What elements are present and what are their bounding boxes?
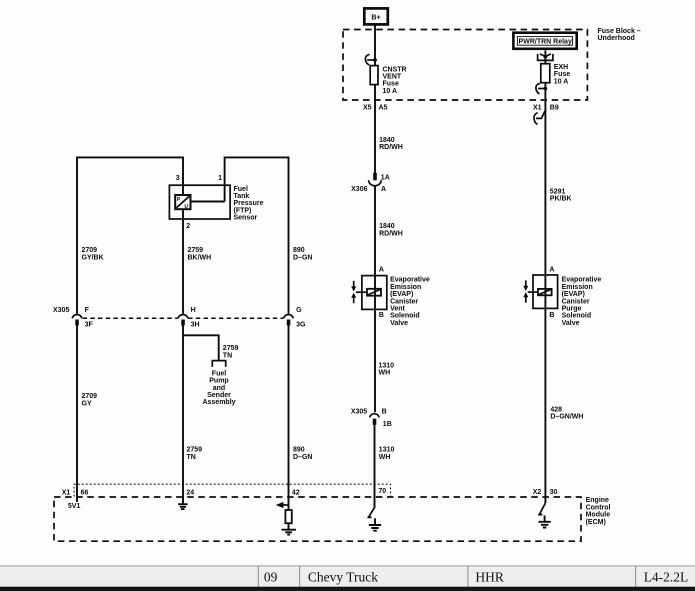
wire label 1310 WH upper [379, 362, 395, 376]
vent valve name label [390, 277, 430, 327]
svg-text:3G: 3G [296, 321, 306, 328]
svg-text:TN: TN [223, 352, 232, 359]
wire label 2709 GY/BK [82, 247, 104, 261]
ECM connector X1 dotted outline [74, 484, 390, 496]
svg-text:1840: 1840 [379, 137, 395, 144]
svg-text:X1: X1 [533, 105, 542, 112]
wire label 5291 PK/BK [550, 188, 572, 202]
svg-text:1A: 1A [381, 174, 390, 181]
wire X305 G to ECM pin 42 [288, 325, 290, 510]
solenoid L2 EVAP canister purge valve box [528, 275, 558, 308]
wire label 2759 BK/WH [188, 247, 212, 261]
svg-text:1B: 1B [383, 421, 392, 428]
svg-text:1310: 1310 [379, 447, 395, 454]
relay socket terminal under relay [538, 50, 553, 63]
svg-text:Sensor: Sensor [234, 215, 258, 222]
footer black bar [0, 587, 695, 591]
wire label 1840 RD/WH upper [379, 137, 403, 151]
fuel pump and sender assembly terminal bracket [212, 361, 225, 367]
connector X305 row dashed line [83, 317, 284, 319]
svg-text:B: B [549, 312, 554, 319]
svg-text:Assembly: Assembly [202, 399, 235, 406]
fuse F1 CNSTR VENT Fuse 10A [370, 66, 406, 95]
svg-text:Pressure: Pressure [234, 200, 264, 207]
svg-text:1310: 1310 [379, 362, 395, 369]
svg-text:5V1: 5V1 [68, 503, 81, 510]
svg-text:A5: A5 [379, 105, 388, 112]
svg-text:890: 890 [293, 447, 305, 454]
fuel pump and sender assembly label [202, 370, 235, 406]
svg-text:Fuse: Fuse [383, 81, 399, 88]
svg-text:5291: 5291 [550, 188, 566, 195]
svg-text:X2: X2 [533, 489, 542, 496]
svg-text:Fuse: Fuse [554, 71, 570, 78]
svg-text:24: 24 [186, 489, 194, 496]
svg-text:2759: 2759 [223, 345, 239, 352]
svg-text:PK/BK: PK/BK [550, 196, 572, 203]
svg-text:428: 428 [550, 407, 562, 414]
switch S1 at ECM pin 70 [367, 508, 374, 518]
wire label 1840 RD/WH lower [379, 223, 403, 237]
svg-text:and: and [213, 385, 225, 392]
wire label 2759 TN branch [223, 345, 239, 359]
label Fuse Block - Underhood [598, 28, 641, 42]
svg-text:2709: 2709 [82, 247, 98, 254]
connector X305 pin B/1B [351, 409, 392, 428]
svg-text:B: B [379, 312, 384, 319]
purge valve pneumatic arrows [523, 280, 528, 302]
svg-text:42: 42 [292, 489, 300, 496]
svg-text:2759: 2759 [187, 447, 203, 454]
ground G4 at ECM X2 pin 30 [539, 516, 551, 528]
purge valve name label [562, 277, 602, 327]
wire label 890 D-GN upper [293, 247, 312, 261]
svg-text:Valve: Valve [562, 320, 580, 327]
svg-text:P: P [177, 197, 181, 203]
svg-text:10 A: 10 A [554, 78, 569, 85]
svg-text:D–GN: D–GN [293, 454, 312, 461]
svg-text:1: 1 [218, 175, 222, 182]
svg-text:Fuel: Fuel [234, 186, 248, 193]
wire label 2759 TN main [187, 447, 203, 461]
svg-text:Control: Control [586, 504, 611, 511]
svg-text:1840: 1840 [379, 223, 395, 230]
ECM name label [586, 497, 611, 526]
vent valve pneumatic arrows [351, 281, 356, 303]
svg-text:(ECM): (ECM) [586, 519, 606, 526]
wire label 1310 WH lower [379, 447, 395, 461]
svg-text:30: 30 [550, 489, 558, 496]
svg-text:Module: Module [586, 512, 611, 519]
wire purge valve to ECM X2 pin [544, 308, 546, 503]
svg-text:U: U [184, 204, 188, 210]
svg-text:Canister: Canister [562, 298, 590, 305]
svg-text:Underhood: Underhood [598, 35, 635, 42]
svg-text:3: 3 [176, 175, 180, 182]
svg-text:Emission: Emission [562, 284, 593, 291]
terminal clip above fuse F1 [365, 54, 377, 65]
svg-text:Sender: Sender [207, 392, 231, 399]
svg-text:Engine: Engine [586, 497, 609, 504]
svg-text:890: 890 [293, 247, 305, 254]
svg-text:10 A: 10 A [383, 88, 398, 95]
FTP transducer square element [175, 195, 190, 210]
svg-text:VENT: VENT [383, 74, 402, 81]
svg-text:70: 70 [378, 488, 386, 495]
internal arrow at ECM pin 42 [276, 502, 289, 508]
connector X5 pin A5 labels [363, 105, 388, 112]
svg-text:EXH: EXH [554, 64, 568, 71]
FTP sensor label [234, 186, 264, 222]
svg-text:A: A [381, 186, 386, 193]
wire label 2709 GY [82, 393, 98, 407]
svg-text:X306: X306 [351, 186, 367, 193]
svg-text:X305: X305 [351, 409, 367, 416]
sensor B1 Fuel Tank Pressure FTP outer box [169, 185, 230, 219]
connector X306 pin 1A/A [351, 173, 390, 193]
svg-text:Fuse Block –: Fuse Block – [598, 28, 641, 35]
svg-text:D–GN: D–GN [293, 254, 312, 261]
relay U1 PWR/TRN Relay [513, 33, 576, 49]
svg-text:L4-2.2L: L4-2.2L [644, 570, 689, 585]
wire label 890 D-GN lower [293, 447, 312, 461]
solenoid L1 EVAP canister vent valve box [356, 276, 387, 310]
ground G3 at ECM pin 70 [369, 518, 381, 530]
svg-text:Emission: Emission [390, 284, 421, 291]
svg-text:Canister: Canister [390, 298, 418, 305]
svg-text:Pump: Pump [209, 378, 228, 385]
fuse F2 EXH Fuse 10A [541, 64, 570, 86]
svg-text:GY: GY [82, 400, 92, 407]
connector X305 pin G [284, 307, 306, 329]
svg-text:Fuel: Fuel [212, 370, 226, 377]
wire branch to fuel pump [183, 335, 219, 360]
svg-text:B+: B+ [371, 14, 380, 21]
ground G2 below resistor [282, 523, 297, 534]
svg-text:B: B [382, 409, 387, 416]
svg-text:(FTP): (FTP) [234, 207, 252, 214]
svg-text:09: 09 [264, 570, 278, 585]
svg-text:Vent: Vent [390, 306, 405, 313]
wire through FTP square [182, 185, 184, 219]
svg-text:HHR: HHR [475, 570, 504, 585]
svg-text:X305: X305 [53, 307, 69, 314]
svg-text:Tank: Tank [234, 193, 250, 200]
ECM dashed box [54, 497, 581, 541]
svg-text:Solenoid: Solenoid [562, 313, 592, 320]
svg-text:X1: X1 [62, 489, 71, 496]
svg-text:66: 66 [81, 489, 89, 496]
svg-text:Evaporative: Evaporative [562, 277, 602, 284]
svg-text:B9: B9 [550, 105, 559, 112]
svg-text:(EVAP): (EVAP) [562, 291, 585, 298]
svg-text:WH: WH [379, 370, 391, 377]
svg-text:PWR/TRN Relay: PWR/TRN Relay [519, 38, 572, 45]
svg-text:G: G [296, 307, 302, 314]
wire X305 H to ECM pin 24 [182, 325, 184, 501]
wire FTP pin 1 loop to right column [225, 157, 289, 313]
svg-text:RD/WH: RD/WH [379, 230, 403, 237]
svg-text:(EVAP): (EVAP) [390, 291, 413, 298]
svg-text:RD/WH: RD/WH [379, 144, 403, 151]
wire vent valve to X305 B [374, 309, 376, 412]
svg-text:3F: 3F [85, 321, 94, 328]
connector X1 pin B9 labels [533, 105, 559, 112]
svg-text:Solenoid: Solenoid [390, 313, 420, 320]
wire FTP square to pin1 internal [191, 201, 225, 203]
terminal clip below EXH fuse [536, 83, 547, 110]
svg-text:Purge: Purge [562, 306, 582, 313]
svg-text:X5: X5 [363, 105, 372, 112]
svg-text:A: A [379, 267, 384, 274]
svg-text:BK/WH: BK/WH [188, 254, 212, 261]
svg-text:H: H [191, 307, 196, 314]
footer info bar [0, 566, 695, 588]
terminal pigtail below X1 B9 [534, 110, 546, 276]
svg-text:Chevy Truck: Chevy Truck [308, 570, 378, 585]
wire B+ to CNSTR VENT fuse [374, 24, 376, 65]
svg-text:CNSTR: CNSTR [383, 66, 407, 73]
svg-text:3H: 3H [191, 321, 200, 328]
switch S2 at ECM X2 pin 30 [538, 503, 545, 515]
battery feed B+ box [364, 8, 388, 24]
resistor R1 inside ECM [285, 510, 291, 523]
svg-text:TN: TN [187, 454, 196, 461]
wire FTP pin 3 loop to left column [77, 157, 183, 313]
svg-text:D–GN/WH: D–GN/WH [550, 414, 583, 421]
ground G1 at ECM pin 24 [178, 497, 188, 509]
wire X305 1B to ECM pin 70 [374, 425, 376, 508]
FTP pin 2 label and wire [183, 219, 190, 314]
svg-text:WH: WH [379, 454, 391, 461]
svg-text:2759: 2759 [188, 247, 204, 254]
svg-text:GY/BK: GY/BK [82, 254, 104, 261]
svg-text:Evaporative: Evaporative [390, 277, 430, 284]
connector X305 pin H [178, 307, 199, 329]
fuse block underhood dashed box [343, 30, 587, 101]
wire label 428 D-GN/WH [550, 407, 583, 421]
svg-text:F: F [85, 307, 90, 314]
wire X305 F to ECM pin 66 [76, 325, 78, 502]
svg-text:A: A [549, 267, 554, 274]
svg-text:2709: 2709 [82, 393, 98, 400]
wire X306 to EVAP vent valve [374, 186, 376, 276]
wire CNSTR fuse to X5/A5 [374, 85, 376, 174]
connector X305 pin F [72, 307, 93, 329]
svg-text:Valve: Valve [390, 320, 408, 327]
svg-text:2: 2 [186, 223, 190, 230]
